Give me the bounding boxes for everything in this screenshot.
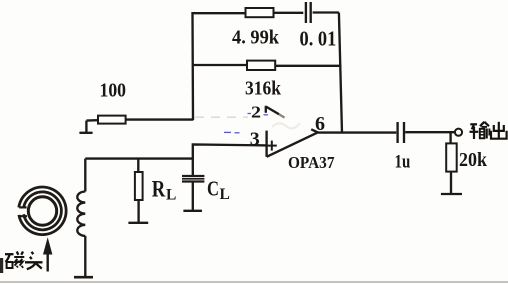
svg-text:4. 99k: 4. 99k <box>232 26 280 48</box>
svg-text:6: 6 <box>315 113 325 135</box>
svg-text:OPA37: OPA37 <box>288 153 335 172</box>
svg-text:20k: 20k <box>459 150 487 171</box>
svg-text:100: 100 <box>100 80 127 101</box>
svg-text:L: L <box>220 186 230 203</box>
svg-text:0. 01: 0. 01 <box>300 27 337 51</box>
svg-text:L: L <box>166 187 176 204</box>
svg-text:1u: 1u <box>395 152 411 173</box>
svg-text:R: R <box>152 177 166 202</box>
svg-text:2: 2 <box>251 102 261 121</box>
svg-text:3: 3 <box>250 130 260 150</box>
svg-text:316k: 316k <box>245 78 282 100</box>
svg-text:C: C <box>207 177 219 201</box>
